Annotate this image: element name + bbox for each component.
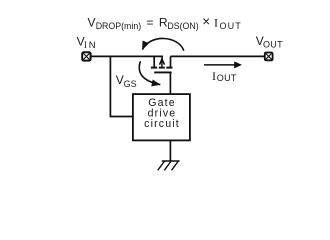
transistor Q1 MOSFET [151,56,173,72]
drain lead [170,56,172,67]
svg-text:V: V [88,16,96,30]
svg-text:I: I [212,69,216,83]
svg-text:DROP(min): DROP(min) [96,21,142,31]
svg-text:=: = [147,16,154,30]
svg-text:I: I [214,15,218,29]
svg-text:OUT: OUT [220,21,242,31]
wire VGS branch from input rail to gate drive circuit [110,56,132,116]
svg-text:N: N [89,40,96,51]
terminal VIN [82,52,90,60]
wire rail from MOSFET drain to VOUT [170,55,264,57]
node VIN label [77,34,96,51]
arrow VGS from source wire to gate [139,61,160,84]
svg-text:I: I [84,40,87,50]
channel segment middle [159,67,165,69]
arrow VDROP measurement arc across MOSFET [142,38,183,50]
source lead [153,56,155,67]
svg-text:OUT: OUT [263,40,283,50]
svg-text:circuit: circuit [144,118,180,130]
svg-text:V: V [116,73,124,87]
label formula VDROP(min) = RDS(ON) x IOUT [88,14,242,31]
svg-text:GS: GS [124,79,137,89]
gate drive circuit block [133,94,190,140]
svg-text:OUT: OUT [217,73,237,83]
terminal VOUT [265,53,273,61]
channel segment right [166,67,172,69]
svg-text:DS(ON): DS(ON) [167,21,198,31]
node VOUT label [256,34,283,50]
wire gate lead to gate drive circuit [169,72,171,94]
wire gate drive circuit to ground [169,140,171,161]
arrow IOUT current direction [204,61,242,68]
gate bar [154,71,172,73]
body arrow [161,56,163,60]
label IOUT [212,69,237,83]
wire rail from VIN to MOSFET source [91,55,163,57]
ground (chassis) [158,161,180,170]
svg-text:×: × [202,14,210,29]
label VGS [116,73,137,89]
channel segment left [151,67,157,69]
